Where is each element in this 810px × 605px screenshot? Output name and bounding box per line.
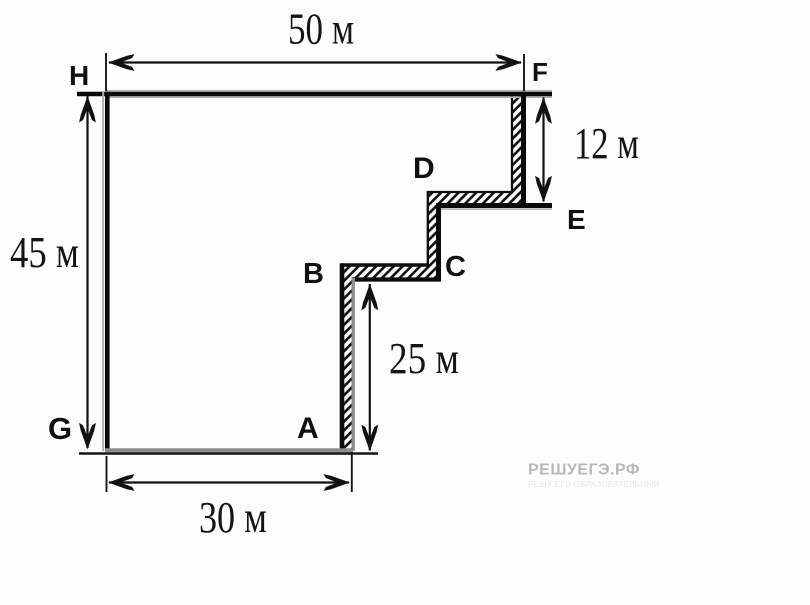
svg-text:45 м: 45 м: [10, 228, 79, 277]
svg-text:D: D: [413, 152, 435, 185]
svg-text:A: A: [297, 412, 319, 445]
svg-text:РЕШУ ЕГЭ ОБРАЗОВАТЕЛЬНЫЙ: РЕШУ ЕГЭ ОБРАЗОВАТЕЛЬНЫЙ: [528, 480, 660, 489]
svg-text:F: F: [532, 57, 548, 87]
svg-text:B: B: [303, 258, 324, 290]
svg-text:РЕШУЕГЭ.РФ: РЕШУЕГЭ.РФ: [528, 462, 640, 479]
svg-text:12 м: 12 м: [574, 119, 639, 168]
svg-text:E: E: [567, 204, 586, 235]
svg-text:25 м: 25 м: [389, 334, 459, 383]
svg-text:H: H: [69, 60, 89, 91]
svg-text:C: C: [445, 251, 466, 283]
svg-text:30 м: 30 м: [199, 493, 267, 542]
svg-text:50 м: 50 м: [288, 5, 354, 54]
svg-text:G: G: [48, 411, 72, 446]
